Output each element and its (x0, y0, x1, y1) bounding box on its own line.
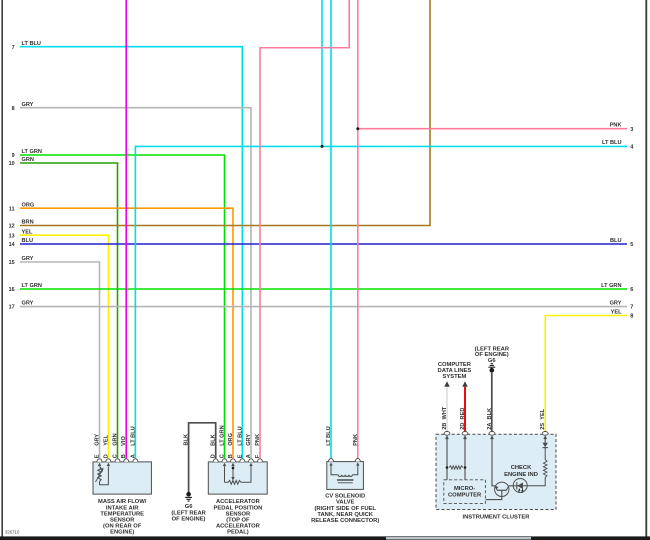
svg-text:A: A (130, 454, 136, 458)
junction dot wire 4 / LT BLU riser (321, 145, 324, 148)
cluster internal wire from pin 2D to micro-computer (464, 437, 466, 480)
svg-text:GRN: GRN (113, 433, 119, 445)
svg-text:ENGINE IND: ENGINE IND (504, 472, 538, 478)
svg-text:MASS AIR FLOW/: MASS AIR FLOW/ (98, 499, 147, 505)
APP connector bump pin F (258, 459, 263, 462)
APP pin A arrowhead (249, 463, 252, 467)
svg-text:12: 12 (9, 224, 15, 230)
svg-text:GRY: GRY (610, 300, 622, 306)
svg-text:ORG: ORG (228, 433, 234, 446)
instrument cluster dashed box (436, 434, 556, 509)
svg-text:16: 16 (9, 287, 15, 293)
PNK riser from top edge jog to accelerator pedal position sensor pin F (260, 0, 349, 458)
svg-text:LT GRN: LT GRN (220, 425, 226, 445)
svg-text:TEMPERATURE: TEMPERATURE (100, 511, 144, 517)
transistor Q1 (check engine driver) (495, 482, 509, 496)
svg-text:8: 8 (12, 106, 15, 112)
svg-text:17: 17 (9, 305, 15, 311)
svg-text:5: 5 (630, 242, 633, 248)
svg-text:CHECK: CHECK (511, 465, 532, 471)
APP connector bump pin C (222, 459, 227, 462)
right page border (645, 0, 647, 537)
svg-text:13: 13 (9, 233, 15, 239)
cluster internal wire from pin 2B to micro-computer (446, 437, 448, 480)
svg-text:E: E (95, 454, 101, 458)
MAF connector bump pin D (106, 459, 111, 462)
instrument cluster connector pin (RED) (462, 431, 467, 434)
CV solenoid bump left pin (329, 459, 334, 462)
svg-text:OF ENGINE): OF ENGINE) (172, 517, 206, 523)
svg-text:15: 15 (9, 260, 15, 266)
MAF intake air temperature thermistor (variable resistor) (98, 467, 101, 482)
left page border (1, 0, 3, 540)
APP connector bump pin E (240, 459, 245, 462)
svg-text:7: 7 (630, 305, 633, 311)
svg-text:VIO: VIO (121, 436, 127, 446)
PNK riser from top edge to CV solenoid valve right pin (357, 0, 359, 458)
CV solenoid coil and core (331, 466, 338, 475)
accelerator pedal position sensor box (208, 462, 267, 494)
svg-text:SENSOR: SENSOR (226, 511, 251, 517)
svg-text:E: E (237, 454, 243, 458)
cluster internal wire from pin 2A to transistor emitter (492, 437, 495, 486)
MAF pin E arrowhead (98, 463, 101, 467)
svg-text:(ON REAR OF: (ON REAR OF (103, 524, 142, 530)
APP connector bump pin D (213, 459, 218, 462)
bottom scrollbar track (0, 536, 650, 540)
svg-text:YEL: YEL (611, 309, 622, 315)
cluster resistor between 2B and 2D lines (449, 466, 463, 469)
svg-text:C: C (113, 454, 119, 458)
svg-text:LT BLU: LT BLU (130, 426, 136, 445)
LT BLU riser from top edge to junction on wire 4 (321, 0, 323, 146)
svg-text:A: A (246, 454, 252, 458)
svg-text:F: F (255, 454, 261, 458)
svg-text:326710: 326710 (5, 530, 20, 535)
svg-text:11: 11 (9, 206, 15, 212)
svg-text:PNK: PNK (255, 434, 261, 446)
instrument cluster connector pin (YEL) (543, 431, 548, 434)
svg-text:CV SOLENOID: CV SOLENOID (325, 494, 365, 500)
svg-text:LT GRN: LT GRN (601, 283, 621, 289)
svg-text:PNK: PNK (610, 123, 622, 129)
svg-text:MICRO-: MICRO- (454, 486, 475, 492)
svg-text:INTAKE AIR: INTAKE AIR (106, 505, 139, 511)
svg-text:TANK, NEAR QUICK: TANK, NEAR QUICK (317, 512, 373, 518)
svg-text:LT BLU: LT BLU (602, 140, 621, 146)
check engine indicator LED (513, 479, 527, 493)
MAF connector bump pin E (97, 459, 102, 462)
APP connector bump pin B (231, 459, 236, 462)
svg-text:2B WHT: 2B WHT (442, 406, 448, 430)
WHT wire to computer data lines (off-page arrow up) (444, 381, 449, 387)
instrument cluster connector pin (BLK) (489, 431, 494, 434)
svg-text:LT BLU: LT BLU (326, 426, 332, 445)
svg-text:RELEASE CONNECTOR): RELEASE CONNECTOR) (311, 518, 379, 524)
RED wire to computer data lines (off-page arrow up) (462, 381, 467, 387)
svg-text:BLU: BLU (610, 238, 622, 244)
svg-text:(RIGHT SIDE OF FUEL: (RIGHT SIDE OF FUEL (314, 506, 376, 512)
svg-text:PEDAL POSITION: PEDAL POSITION (213, 505, 262, 511)
CV solenoid bump right pin (355, 459, 360, 462)
svg-text:VALVE: VALVE (336, 500, 355, 506)
instrument cluster connector pin (WHT) (444, 431, 449, 434)
MAF connector bump pin C (115, 459, 120, 462)
svg-text:C: C (220, 454, 226, 458)
svg-text:INSTRUMENT CLUSTER: INSTRUMENT CLUSTER (463, 514, 531, 520)
svg-text:LT BLU: LT BLU (22, 41, 41, 47)
svg-text:G6: G6 (185, 504, 194, 510)
CV solenoid right pin arrowhead (356, 462, 359, 466)
svg-text:B: B (228, 454, 234, 458)
MAF connector bump pin B (124, 459, 129, 462)
ground G6 symbol at instrument cluster (491, 363, 493, 365)
svg-text:2D RED: 2D RED (460, 408, 466, 430)
MAF pin D arrowhead (107, 463, 110, 467)
mass air flow / intake air temperature sensor box (93, 462, 151, 494)
APP pin B arrowhead (231, 463, 234, 467)
svg-text:ACCELERATOR: ACCELERATOR (216, 499, 261, 505)
svg-text:8: 8 (630, 314, 633, 320)
junction dot wire 3 / PNK riser (356, 127, 359, 130)
ground G6 (left rear of engine) symbol (186, 492, 191, 497)
svg-text:2S YEL: 2S YEL (540, 408, 546, 429)
svg-text:GRY: GRY (95, 434, 101, 446)
svg-text:SYSTEM: SYSTEM (442, 374, 466, 380)
svg-text:B: B (121, 454, 127, 458)
svg-text:7: 7 (12, 45, 15, 51)
svg-text:PNK: PNK (353, 434, 359, 446)
svg-text:3: 3 (630, 127, 633, 133)
svg-text:SENSOR: SENSOR (110, 518, 135, 524)
svg-text:(TOP OF: (TOP OF (226, 518, 250, 524)
svg-text:6: 6 (630, 287, 633, 293)
svg-text:10: 10 (9, 161, 15, 167)
VIO riser from top edge to mass air flow sensor pin B (125, 0, 127, 458)
svg-text:GRY: GRY (246, 434, 252, 446)
svg-text:9: 9 (12, 153, 15, 159)
svg-text:PEDAL): PEDAL) (227, 530, 249, 536)
svg-text:LT BLU: LT BLU (237, 426, 243, 445)
resistor on 2S line to check engine LED (544, 448, 546, 460)
BLK wire from G6 down to instrument cluster pin 2A (491, 372, 493, 431)
CV solenoid left pin arrowhead (329, 462, 332, 466)
svg-text:BLK: BLK (211, 434, 217, 446)
svg-text:BLK: BLK (184, 434, 190, 446)
diode on 2S line (544, 437, 546, 443)
BLK wire from ground G6 to accelerator pedal position sensor pin D (189, 423, 216, 493)
svg-text:COMPUTER: COMPUTER (448, 492, 482, 498)
svg-text:D: D (103, 454, 109, 458)
svg-text:ACCELERATOR: ACCELERATOR (216, 524, 261, 530)
MAF connector bump pin A (133, 459, 138, 462)
LT BLU riser from top edge to CV solenoid valve left pin (330, 0, 332, 458)
APP pin C arrowhead (223, 463, 226, 467)
svg-text:14: 14 (9, 242, 15, 248)
micro-computer dashed box (444, 480, 486, 504)
CV solenoid valve box (327, 462, 364, 490)
svg-text:2A BLK: 2A BLK (487, 408, 493, 430)
svg-text:(LEFT REAR: (LEFT REAR (171, 510, 206, 516)
svg-text:D: D (211, 454, 217, 458)
APP potentiometer wiper arrow (232, 466, 234, 477)
APP potentiometer resistor (224, 466, 226, 482)
svg-text:ENGINE): ENGINE) (110, 530, 134, 536)
bottom scrollbar thumb (386, 537, 531, 540)
APP connector bump pin A (249, 459, 254, 462)
svg-text:YEL: YEL (103, 434, 109, 445)
